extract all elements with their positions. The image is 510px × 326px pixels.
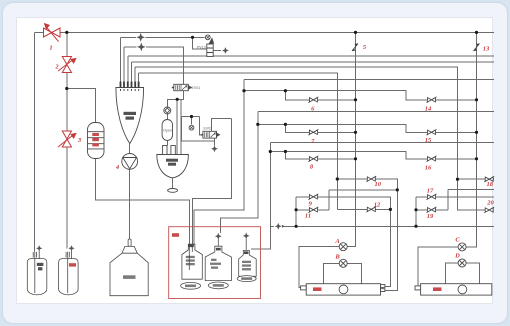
svg-text:3: 3 bbox=[77, 137, 82, 144]
svg-text:5: 5 bbox=[363, 44, 367, 51]
svg-text:2: 2 bbox=[54, 64, 59, 71]
svg-text:13: 13 bbox=[483, 46, 490, 53]
svg-text:1: 1 bbox=[49, 45, 52, 52]
svg-text:Open: Open bbox=[163, 129, 172, 133]
svg-text:16: 16 bbox=[425, 165, 432, 172]
svg-text:7: 7 bbox=[311, 138, 315, 145]
svg-text:18: 18 bbox=[487, 181, 494, 188]
svg-text:19: 19 bbox=[427, 213, 434, 220]
svg-text:15: 15 bbox=[425, 137, 432, 144]
svg-text:PV10: PV10 bbox=[197, 46, 206, 50]
svg-text:14: 14 bbox=[425, 106, 432, 113]
svg-text:A: A bbox=[334, 238, 340, 245]
svg-text:EV01: EV01 bbox=[192, 86, 201, 90]
svg-text:20: 20 bbox=[486, 200, 494, 207]
svg-text:10: 10 bbox=[375, 181, 382, 188]
svg-text:C: C bbox=[455, 237, 460, 244]
svg-text:17: 17 bbox=[427, 187, 434, 194]
svg-text:9: 9 bbox=[309, 201, 313, 208]
svg-text:B: B bbox=[334, 254, 340, 261]
svg-text:11: 11 bbox=[305, 213, 311, 220]
svg-text:4: 4 bbox=[115, 164, 120, 171]
svg-text:12: 12 bbox=[374, 202, 381, 209]
svg-text:EV02: EV02 bbox=[204, 126, 213, 130]
svg-text:8: 8 bbox=[310, 164, 314, 171]
svg-text:D: D bbox=[454, 253, 460, 260]
